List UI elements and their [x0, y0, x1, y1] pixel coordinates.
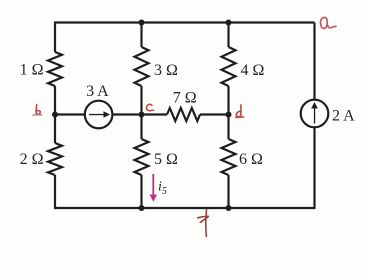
wire bottom — [54, 207, 316, 209]
wire branch2 bottom — [140, 175, 142, 208]
wire middle right (7ohm to d) — [200, 113, 229, 115]
current source I2 arrow — [311, 102, 318, 124]
junction dot bottom branch2 — [139, 205, 145, 211]
wire right branch upper — [313, 23, 315, 100]
svg-text:5 Ω: 5 Ω — [154, 151, 178, 168]
current source I2 2A circle — [301, 100, 329, 128]
svg-text:3 Ω: 3 Ω — [154, 62, 178, 79]
resistor R 2ohm — [48, 143, 62, 175]
node d handwritten label — [236, 105, 244, 117]
svg-text:4 Ω: 4 Ω — [241, 62, 265, 79]
junction dot top branch3 — [226, 20, 232, 26]
node d dot — [226, 112, 232, 118]
wire branch3 middle — [227, 86, 229, 139]
wire middle left (b to 3A source) — [55, 113, 85, 115]
resistor R 5ohm — [135, 139, 149, 175]
svg-text:7 Ω: 7 Ω — [173, 90, 197, 107]
wire left branch bottom — [54, 175, 56, 208]
wire branch3 top stub — [227, 23, 229, 48]
junction dot top branch2 — [139, 20, 145, 26]
wire top (a to top-left corner) — [55, 21, 315, 23]
wire left branch top stub — [54, 22, 56, 53]
svg-text:2 A: 2 A — [332, 108, 355, 125]
wire right branch lower — [313, 127, 315, 208]
resistor R 3ohm — [135, 47, 149, 86]
svg-text:2 Ω: 2 Ω — [20, 151, 44, 168]
svg-text:i5: i5 — [158, 180, 167, 198]
node a handwritten label — [321, 17, 336, 28]
reference node handwritten mark — [198, 210, 209, 237]
svg-text:3 A: 3 A — [86, 83, 109, 100]
node c handwritten label — [146, 104, 153, 110]
wire branch2 middle — [140, 86, 142, 139]
resistor R 4ohm — [222, 47, 236, 86]
wire branch2 top stub — [140, 23, 142, 48]
current arrow i5 — [150, 174, 157, 202]
current source I1 arrow — [89, 111, 110, 118]
wire left branch middle — [54, 86, 56, 143]
wire middle (3A source to c) — [112, 113, 167, 115]
resistor R 1ohm — [48, 52, 62, 86]
resistor R 7ohm — [167, 108, 200, 121]
svg-text:1 Ω: 1 Ω — [20, 62, 44, 79]
node b handwritten label — [33, 105, 42, 116]
junction dot bottom branch3 — [226, 205, 232, 211]
wire branch3 bottom — [227, 175, 229, 208]
node b dot — [52, 112, 58, 118]
svg-text:6 Ω: 6 Ω — [239, 151, 263, 168]
current source I1 3A circle — [85, 101, 113, 129]
node c dot — [139, 112, 145, 118]
resistor R 6ohm — [222, 139, 236, 175]
